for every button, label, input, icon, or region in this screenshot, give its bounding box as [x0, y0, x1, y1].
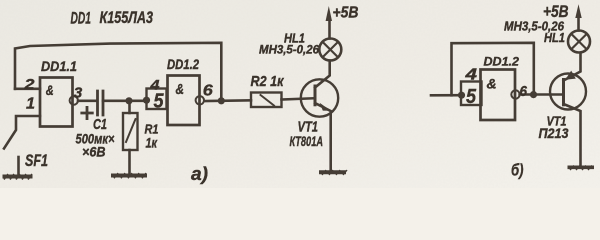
svg-text:6: 6 [203, 83, 213, 100]
svg-text:&: & [176, 82, 185, 98]
svg-text:DD1: DD1 [71, 9, 92, 28]
svg-text:МН3,5-0,26: МН3,5-0,26 [259, 45, 320, 57]
svg-text:HL1: HL1 [544, 31, 565, 45]
svg-text:DD1.2: DD1.2 [484, 55, 520, 69]
svg-text:R2 1к: R2 1к [251, 73, 285, 90]
svg-text:SF1: SF1 [25, 152, 48, 170]
svg-text:×6В: ×6В [82, 144, 106, 160]
svg-text:HL1: HL1 [284, 32, 305, 46]
svg-text:+5В: +5В [333, 5, 359, 22]
svg-text:КТ801А: КТ801А [290, 133, 324, 149]
svg-text:2: 2 [23, 77, 34, 93]
svg-text:R1: R1 [145, 122, 159, 137]
svg-text:1: 1 [26, 96, 35, 113]
svg-text:а): а) [191, 164, 208, 184]
svg-text:&: & [46, 83, 54, 98]
svg-text:С1: С1 [93, 116, 107, 133]
svg-text:П213: П213 [539, 126, 569, 141]
svg-text:3: 3 [74, 85, 83, 101]
svg-text:+5В: +5В [543, 3, 569, 21]
svg-text:5: 5 [154, 91, 165, 113]
svg-text:DD1.2: DD1.2 [167, 57, 199, 72]
svg-text:DD1.1: DD1.1 [41, 58, 77, 74]
svg-text:4: 4 [464, 67, 477, 84]
svg-text:1к: 1к [146, 136, 158, 151]
svg-text:6: 6 [520, 83, 528, 100]
svg-text:5: 5 [466, 86, 477, 108]
svg-text:К155ЛА3: К155ЛА3 [100, 8, 154, 27]
svg-text:б): б) [511, 161, 524, 180]
svg-text:&: & [487, 76, 497, 92]
